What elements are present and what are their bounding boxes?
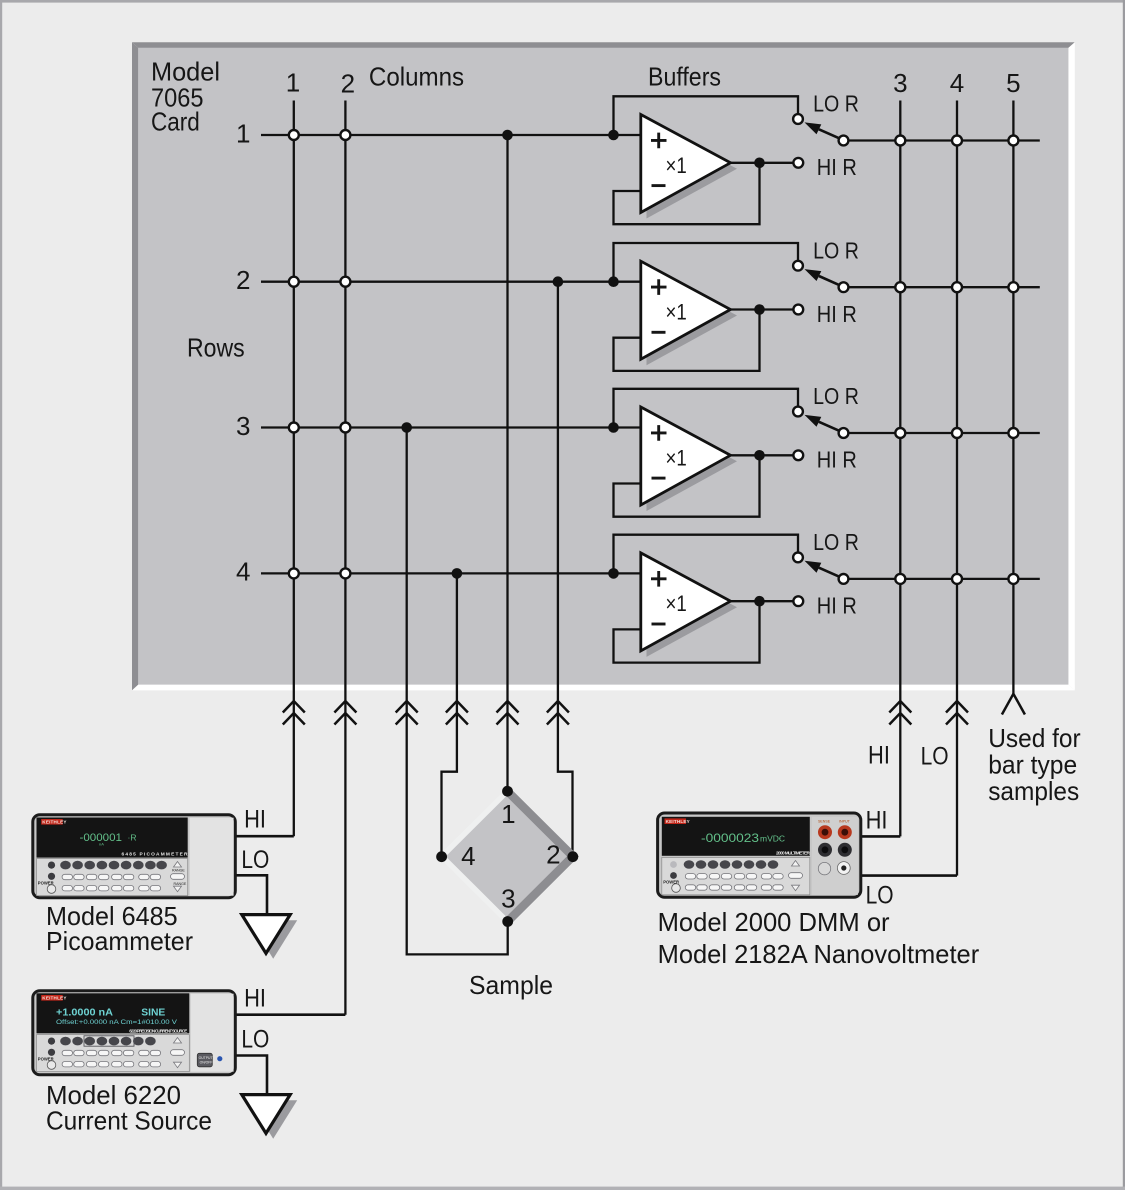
- wire column 3: [899, 101, 901, 837]
- wire row 1 left segment: [261, 134, 641, 136]
- svg-text:samples: samples: [988, 776, 1079, 806]
- crosspoint row 4 column 3: [895, 574, 905, 584]
- chevron break mark on sample lead 3: [396, 701, 418, 725]
- svg-text:4: 4: [236, 557, 250, 587]
- svg-text:LO R: LO R: [813, 237, 859, 263]
- svg-text:INPUT: INPUT: [839, 819, 851, 823]
- label Model 6485 Picoammeter: [46, 901, 193, 956]
- wire row 2 left segment: [261, 281, 641, 283]
- switch S3 pivot contact: [839, 428, 849, 438]
- svg-text:2000 MULTIMETER: 2000 MULTIMETER: [776, 851, 811, 857]
- crosspoint row 3 column 5: [1008, 428, 1018, 438]
- svg-text:2: 2: [546, 840, 560, 870]
- op-amp U1 buffer x1: [641, 115, 737, 219]
- switch S1 wiper arm with arrow: [805, 122, 840, 138]
- wire Model 2000 HI to column 3: [861, 835, 901, 838]
- wire buffer 2 feedback loop: [614, 310, 760, 371]
- svg-text:LO R: LO R: [813, 91, 859, 117]
- svg-text:LO R: LO R: [813, 383, 859, 409]
- op-amp U4 buffer x1: [641, 553, 737, 657]
- svg-text:5: 5: [1006, 68, 1020, 98]
- op-amp U3 buffer x1: [641, 407, 737, 511]
- label Model 6220 Current Source: [46, 1080, 212, 1136]
- svg-text:KEITHLEY: KEITHLEY: [42, 996, 66, 1001]
- wire sample lead from row 3 to sample node 3: [407, 428, 508, 955]
- label Used for bar type samples: [988, 723, 1081, 806]
- svg-text:Rows: Rows: [187, 332, 245, 362]
- svg-text:Model 2182A Nanovoltmeter: Model 2182A Nanovoltmeter: [658, 939, 980, 969]
- wire row 4 left segment: [261, 572, 641, 574]
- instrument Model 6220 Current Source: [33, 991, 236, 1075]
- node 4 sample left: [436, 851, 447, 862]
- svg-text:×1: ×1: [666, 591, 687, 616]
- svg-text:×1: ×1: [666, 153, 687, 178]
- svg-text:HI R: HI R: [817, 447, 857, 473]
- crosspoint row 2 column 4: [952, 282, 962, 292]
- instrument Model 2000 DMM: [658, 813, 861, 897]
- crosspoint row 4 column 4: [952, 574, 962, 584]
- crosspoint row 1 column 3: [895, 136, 905, 146]
- wire buffer 3 feedback loop: [614, 455, 760, 516]
- junction dot buffer 2 input: [608, 276, 619, 287]
- crosspoint row 3 column 1: [289, 423, 299, 433]
- wire sample lead from row 4 to sample node 4: [442, 573, 457, 856]
- svg-text:LO: LO: [866, 882, 894, 910]
- column number labels 1 2 3 4 5: [286, 68, 1021, 99]
- chevron break mark on column 3: [889, 701, 911, 725]
- terminal LO R contact buffer 1: [793, 114, 803, 124]
- Model 7065 card body: [132, 42, 1075, 690]
- junction dot buffer 1 input: [608, 130, 619, 141]
- wire column 5: [1012, 101, 1014, 694]
- wire Model 6220 HI to column 2: [235, 1013, 346, 1016]
- ground symbol below Model 6485: [242, 915, 297, 959]
- svg-text:Columns: Columns: [369, 62, 464, 92]
- svg-text:Picoammeter: Picoammeter: [46, 926, 193, 956]
- svg-text:-0000023: -0000023: [701, 833, 759, 845]
- terminal HI R contact buffer 3: [793, 450, 803, 460]
- chevron break mark on sample lead 2: [547, 701, 569, 725]
- svg-text:2: 2: [341, 68, 355, 98]
- crosspoint row 2 column 2: [340, 277, 350, 287]
- junction dot buffer 2 output: [754, 304, 765, 315]
- svg-text:RANGE: RANGE: [174, 882, 187, 886]
- svg-text:×1: ×1: [666, 300, 687, 325]
- svg-text:KEITHLEY: KEITHLEY: [666, 819, 690, 824]
- crosspoint row 3 column 3: [895, 428, 905, 438]
- wire column 2: [344, 101, 346, 1015]
- wire column 4: [956, 101, 958, 876]
- crosspoint row 3 column 4: [952, 428, 962, 438]
- svg-text:2: 2: [236, 265, 250, 295]
- switch S4 wiper arm with arrow: [805, 561, 840, 577]
- label Model 7065 Card: [151, 57, 220, 137]
- svg-text:HI: HI: [868, 742, 890, 770]
- svg-text:3: 3: [236, 411, 250, 441]
- crosspoint row 1 column 5: [1008, 136, 1018, 146]
- switch S2 wiper arm with arrow: [805, 269, 840, 285]
- wire buffer 4 output: [731, 600, 799, 602]
- junction dot row at x=456.9: [452, 568, 463, 579]
- svg-text:6220 PRECISION CURRENT SOURCE: 6220 PRECISION CURRENT SOURCE: [129, 1028, 187, 1033]
- crosspoint row 4 column 2: [340, 568, 350, 578]
- svg-text:1: 1: [286, 68, 300, 98]
- wire row 1 right segment: [844, 139, 1040, 141]
- svg-text:·R: ·R: [128, 833, 137, 843]
- crosspoint row 4 column 1: [289, 568, 299, 578]
- crosspoint row 3 column 2: [340, 423, 350, 433]
- svg-text:LO: LO: [241, 846, 269, 874]
- terminal LO R contact buffer 3: [793, 407, 803, 417]
- chevron break mark on column 4: [946, 701, 968, 725]
- junction dot buffer 3 input: [608, 422, 619, 433]
- crosspoint row 1 column 2: [340, 130, 350, 140]
- label Model 2000 DMM or Model 2182A Nanovoltmeter: [658, 907, 980, 969]
- svg-text:Current Source: Current Source: [46, 1106, 212, 1136]
- node 2 sample right: [567, 851, 578, 862]
- svg-text:Used for: Used for: [988, 723, 1081, 753]
- svg-text:×1: ×1: [666, 445, 687, 470]
- wire sample lead from row 2 to sample node 2: [558, 282, 573, 857]
- svg-text:3: 3: [501, 884, 515, 914]
- svg-text:LO: LO: [921, 743, 949, 771]
- terminal HI R contact buffer 2: [793, 305, 803, 315]
- terminal LO R contact buffer 2: [793, 261, 803, 271]
- svg-text:mVDC: mVDC: [760, 834, 785, 844]
- crosspoint row 4 column 5: [1008, 574, 1018, 584]
- chevron break mark on sample lead 1: [497, 701, 519, 725]
- wire Model 6485 LO to ground: [235, 875, 267, 914]
- svg-text:4: 4: [950, 68, 964, 98]
- node 1 sample top: [502, 786, 513, 797]
- crosspoint row 2 column 1: [289, 277, 299, 287]
- svg-text:OUTPUT: OUTPUT: [199, 1056, 213, 1060]
- wire buffer 3 input rail to LO R contact: [614, 389, 799, 428]
- svg-text:SINE: SINE: [141, 1008, 165, 1019]
- switch S4 pivot contact: [839, 574, 849, 584]
- crosspoint row 1 column 4: [952, 136, 962, 146]
- junction dot buffer 1 output: [754, 158, 765, 169]
- svg-text:Buffers: Buffers: [648, 62, 721, 92]
- chevron end mark on column 5: [1002, 694, 1025, 715]
- junction dot row at x=557.9: [553, 276, 564, 287]
- terminal HI R contact buffer 4: [793, 596, 803, 606]
- svg-text:HI: HI: [244, 984, 266, 1012]
- crosspoint row 1 column 1: [289, 130, 299, 140]
- crosspoint row 2 column 3: [895, 282, 905, 292]
- svg-text:‾: ‾: [778, 838, 781, 845]
- svg-text:HI R: HI R: [817, 593, 857, 619]
- svg-text:nA: nA: [99, 842, 104, 847]
- chevron break mark on column 2: [334, 701, 356, 725]
- wire sample lead from row 1 to sample node 1: [506, 135, 508, 791]
- wire buffer 1 input rail to LO R contact: [614, 96, 799, 135]
- row number labels 1 2 3 4: [236, 118, 250, 586]
- node 3 sample bottom: [502, 916, 513, 927]
- svg-text:Model 2000 DMM or: Model 2000 DMM or: [658, 907, 890, 937]
- terminal LO R contact buffer 4: [793, 553, 803, 563]
- op-amp U2 buffer x1: [641, 261, 737, 365]
- svg-text:HI: HI: [244, 806, 266, 834]
- ground symbol below Model 6220: [242, 1095, 297, 1139]
- svg-text:RANGE: RANGE: [172, 869, 185, 873]
- svg-text:3: 3: [893, 68, 907, 98]
- svg-text:HI R: HI R: [817, 154, 857, 180]
- svg-text:1: 1: [501, 799, 515, 829]
- svg-text:6485 PICOAMMETER: 6485 PICOAMMETER: [122, 851, 189, 857]
- svg-text:+1.0000 nA: +1.0000 nA: [56, 1008, 113, 1019]
- svg-text:Card: Card: [151, 106, 200, 136]
- junction dot row at x=507.5: [502, 130, 513, 141]
- svg-text:Offset:+0.0000 nA Cm=1#010.00: Offset:+0.0000 nA Cm=1#010.00 V: [56, 1019, 178, 1026]
- svg-text:LO: LO: [241, 1026, 269, 1054]
- wire Model 6485 HI to column 1: [235, 835, 294, 838]
- junction dot buffer 4 input: [608, 568, 619, 579]
- svg-text:LO R: LO R: [813, 529, 859, 555]
- svg-text:HI: HI: [866, 806, 888, 834]
- wire Model 6220 LO to ground: [235, 1056, 267, 1095]
- wire buffer 4 feedback loop: [614, 601, 760, 662]
- svg-text:4: 4: [461, 841, 475, 871]
- svg-text:bar type: bar type: [988, 750, 1077, 780]
- switch S1 pivot contact: [839, 136, 849, 146]
- wire row 2 right segment: [844, 286, 1040, 288]
- switch S3 wiper arm with arrow: [805, 415, 840, 431]
- wire row 3 right segment: [844, 432, 1040, 434]
- wire buffer 2 input rail to LO R contact: [614, 243, 799, 282]
- terminal HI R contact buffer 1: [793, 158, 803, 168]
- wire column 1: [293, 101, 295, 837]
- junction dot buffer 4 output: [754, 596, 765, 607]
- instrument Model 6485 Picoammeter: [33, 815, 236, 898]
- wire buffer 4 input rail to LO R contact: [614, 535, 799, 574]
- svg-text:HI R: HI R: [817, 301, 857, 327]
- svg-text:KEITHLEY: KEITHLEY: [42, 820, 66, 825]
- svg-text:SENSE: SENSE: [818, 819, 831, 823]
- wire Model 2000 LO to column 4: [861, 874, 957, 877]
- wire row 3 left segment: [261, 426, 641, 428]
- switch S2 pivot contact: [839, 282, 849, 292]
- wire row 4 right segment: [844, 578, 1040, 580]
- svg-text:Sample: Sample: [469, 970, 553, 1000]
- svg-text:ON/OFF: ON/OFF: [200, 1061, 213, 1065]
- wire buffer 2 output: [731, 308, 799, 310]
- junction dot buffer 3 output: [754, 450, 765, 461]
- chevron break mark on sample lead 4: [446, 701, 468, 725]
- svg-text:1: 1: [236, 118, 250, 148]
- crosspoint row 2 column 5: [1008, 282, 1018, 292]
- junction dot row at x=406.7: [401, 422, 412, 433]
- wire buffer 1 output: [731, 162, 799, 164]
- wire buffer 3 output: [731, 454, 799, 456]
- chevron break mark on column 1: [283, 701, 305, 725]
- wire buffer 1 feedback loop: [614, 163, 760, 224]
- sample (van der Pauw diamond): [442, 791, 573, 921]
